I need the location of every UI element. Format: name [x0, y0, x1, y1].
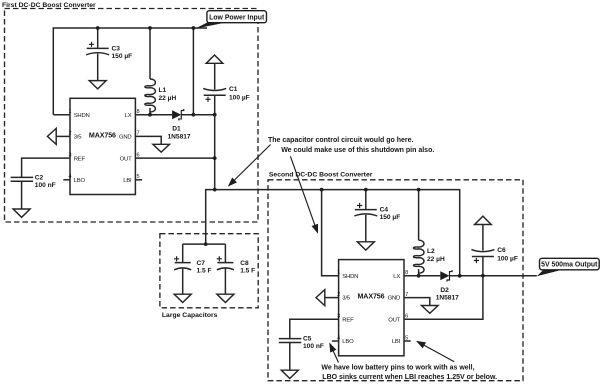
svg-text:LBO: LBO: [342, 339, 354, 345]
svg-text:1N5817: 1N5817: [436, 295, 459, 302]
svg-text:Second DC-DC Boost Converter: Second DC-DC Boost Converter: [269, 172, 373, 179]
ground below C4: [357, 242, 374, 250]
pin 4 stub: [63, 179, 70, 181]
wire LX to diode circuit 1: [135, 114, 172, 116]
svg-text:1N5817: 1N5817: [168, 134, 191, 141]
first converter title: [2, 2, 96, 9]
wire OUT circuit 2: [404, 276, 483, 320]
pin 2 number circuit 2: [337, 292, 340, 298]
label C3: [112, 46, 133, 61]
IC U1 MAX756: [70, 98, 135, 194]
svg-text:100 µF: 100 µF: [229, 95, 250, 102]
node large caps junction: [204, 242, 208, 246]
svg-text:LBO: LBO: [74, 178, 86, 184]
wire REF to C5: [290, 319, 339, 338]
node L1 bottom: [148, 113, 152, 117]
svg-text:MAX756: MAX756: [89, 131, 116, 139]
capacitor C1: [203, 63, 226, 114]
svg-text:L1: L1: [159, 87, 167, 94]
label D1: [168, 126, 191, 141]
ground below C5: [281, 370, 298, 378]
svg-text:3/5: 3/5: [74, 135, 83, 141]
svg-text:150 µF: 150 µF: [380, 214, 401, 221]
svg-text:LBO sinks current when LBI rea: LBO sinks current when LBI reaches 1.25V…: [322, 374, 497, 381]
pin 5 number: [137, 174, 140, 180]
ground below C2: [13, 209, 30, 217]
callout Low Power Input: [195, 11, 267, 29]
wire GND pin circuit 2: [404, 298, 430, 306]
svg-text:Low Power Input: Low Power Input: [209, 14, 265, 21]
pin 7 number: [137, 131, 140, 137]
wire SHDN pin 1 circuit 1: [53, 114, 70, 116]
svg-text:8: 8: [137, 109, 140, 115]
svg-text:C8: C8: [240, 260, 249, 267]
pin 3 number circuit 2: [337, 314, 340, 320]
svg-text:First DC-DC Boost Converter: First DC-DC Boost Converter: [2, 2, 96, 9]
annotation arrow to LBI: [416, 341, 454, 362]
label C4: [380, 207, 401, 222]
svg-text:L2: L2: [427, 248, 435, 255]
svg-text:LBI: LBI: [123, 178, 132, 184]
pin 5 number circuit 2: [405, 335, 408, 341]
svg-text:C6: C6: [497, 247, 506, 254]
node second rail SHDN junction: [320, 188, 324, 192]
pin 4 number circuit 2: [337, 335, 340, 341]
node diode cathode junction: [192, 113, 196, 117]
label C6: [497, 247, 518, 263]
node C6 bottom: [481, 274, 485, 278]
svg-text:C3: C3: [112, 46, 121, 53]
svg-text:8: 8: [405, 270, 408, 276]
first converter dashed box: [5, 9, 259, 223]
svg-text:We could make use of this shut: We could make use of this shutdown pin a…: [281, 147, 434, 154]
pin 2 number: [69, 131, 72, 137]
svg-text:OUT: OUT: [388, 318, 400, 324]
capacitor C6: [471, 225, 494, 276]
node L1 top: [148, 26, 152, 30]
large capacitors label: [162, 312, 218, 319]
svg-text:100 µF: 100 µF: [497, 256, 518, 263]
wire REF to C2: [22, 158, 70, 177]
label L2: [427, 248, 445, 263]
svg-text:REF: REF: [74, 156, 86, 162]
pin 8 number circuit 2: [405, 270, 408, 276]
ground below C7: [174, 294, 191, 302]
svg-text:GND: GND: [119, 135, 132, 141]
node C3 top: [96, 26, 100, 30]
pin 1 number circuit 2: [337, 270, 340, 276]
svg-text:GND: GND: [388, 296, 401, 302]
pin 4 stub circuit 2: [332, 340, 339, 342]
node input rail junction: [192, 26, 196, 30]
node L2 top: [417, 188, 421, 192]
pin 8 number: [137, 109, 140, 115]
label L1: [159, 87, 177, 102]
ground below C3: [89, 81, 106, 89]
svg-text:100 nF: 100 nF: [303, 343, 324, 350]
second converter dashed box: [268, 180, 523, 381]
wire OUT circuit 1: [135, 157, 214, 159]
node output corner: [213, 188, 217, 192]
capacitor C2: [11, 177, 33, 209]
wire input drop to diode node: [192, 28, 194, 115]
svg-text:REF: REF: [342, 318, 354, 324]
svg-text:C4: C4: [380, 207, 389, 214]
pin 5 stub: [135, 179, 142, 181]
node OUT junction: [213, 156, 217, 160]
callout 5V 500ma Output: [537, 258, 599, 276]
inductor L2: [414, 190, 425, 276]
label C2: [35, 175, 56, 190]
ground below C8: [217, 294, 234, 302]
annotation capacitor control text: [268, 137, 434, 154]
diode D1 1N5817: [172, 109, 215, 121]
svg-text:D2: D2: [440, 287, 449, 294]
wire SHDN drop circuit 2: [322, 190, 339, 276]
label C5: [303, 336, 324, 351]
wire output bus: [206, 190, 460, 276]
inductor L1: [145, 28, 156, 115]
svg-text:C2: C2: [35, 175, 44, 182]
pin 4 number: [69, 174, 72, 180]
pin 7 number circuit 2: [405, 292, 408, 298]
label C1: [229, 86, 250, 102]
label C7: [197, 260, 212, 275]
svg-text:22 µH: 22 µH: [427, 256, 445, 263]
wire GND pin circuit 1: [135, 136, 161, 144]
wire LX to diode circuit 2: [404, 275, 440, 277]
svg-text:C5: C5: [303, 336, 312, 343]
power arrow above C6: [475, 216, 492, 224]
node L2 bottom: [417, 274, 421, 278]
svg-text:1: 1: [337, 270, 340, 276]
wire output node vertical: [214, 115, 216, 190]
svg-text:150 µF: 150 µF: [112, 53, 133, 60]
node D2 cathode junction: [458, 274, 462, 278]
annotation arrow to shutdown wire: [290, 156, 318, 234]
svg-text:3/5: 3/5: [342, 296, 351, 302]
capacitor C8: [217, 244, 234, 294]
capacitor C7: [174, 244, 191, 294]
annotation arrow to LBO: [329, 343, 338, 363]
IC U2 MAX756: [339, 260, 404, 356]
svg-text:We have low battery pins to wo: We have low battery pins to work with as…: [321, 365, 474, 372]
pin 3 number: [69, 152, 72, 158]
svg-text:OUT: OUT: [120, 156, 132, 162]
capacitor C5: [279, 339, 302, 371]
power arrow above C1: [206, 55, 223, 63]
second converter title: [269, 172, 373, 179]
svg-text:MAX756: MAX756: [358, 293, 385, 301]
svg-text:SHDN: SHDN: [342, 274, 358, 280]
svg-text:1.5 F: 1.5 F: [240, 268, 255, 275]
diode D2 1N5817: [440, 270, 537, 282]
svg-text:D1: D1: [172, 126, 181, 133]
svg-text:C1: C1: [229, 86, 238, 93]
capacitor C3: [86, 28, 109, 81]
svg-text:Large Capacitors: Large Capacitors: [162, 312, 218, 319]
ground below GND pin circuit 1: [153, 144, 170, 152]
svg-text:C7: C7: [197, 260, 206, 267]
label D2: [436, 287, 459, 302]
svg-text:SHDN: SHDN: [74, 113, 90, 119]
svg-text:22 µH: 22 µH: [159, 95, 177, 102]
svg-text:LBI: LBI: [392, 339, 401, 345]
wire top rail circuit 1: [53, 28, 207, 115]
node C1 bottom: [213, 113, 217, 117]
capacitor C4: [354, 190, 377, 242]
port arrow 3/5 circuit 1: [47, 128, 70, 144]
svg-text:The capacitor control circuit: The capacitor control circuit would go h…: [268, 137, 414, 144]
svg-text:100 nF: 100 nF: [35, 182, 56, 189]
svg-text:LX: LX: [393, 274, 400, 280]
svg-text:1: 1: [69, 109, 72, 115]
wire large caps top: [183, 243, 226, 245]
label C8: [240, 260, 255, 275]
svg-text:LX: LX: [125, 113, 132, 119]
pin 5 stub circuit 2: [404, 340, 411, 342]
pin 6 number circuit 2: [405, 314, 408, 320]
port arrow 3/5 circuit 2: [316, 290, 339, 306]
svg-text:5V 500ma Output: 5V 500ma Output: [541, 262, 598, 269]
svg-text:1.5 F: 1.5 F: [197, 268, 212, 275]
ground below GND pin circuit 2: [422, 306, 439, 314]
annotation arrow to output node: [228, 145, 271, 187]
pin 1 number: [69, 109, 72, 115]
node C4 top: [364, 188, 368, 192]
large capacitors dashed box: [160, 234, 258, 308]
annotation low battery text: [321, 365, 497, 381]
pin 6 number: [137, 152, 140, 158]
